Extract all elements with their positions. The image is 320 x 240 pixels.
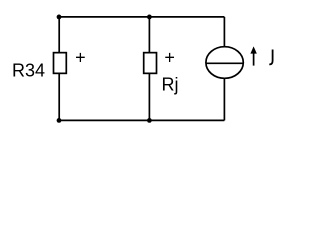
- svg-text:R34: R34: [12, 60, 45, 80]
- svg-text:+: +: [164, 48, 175, 68]
- svg-text:Rj: Rj: [162, 74, 179, 94]
- svg-text:+: +: [75, 48, 86, 68]
